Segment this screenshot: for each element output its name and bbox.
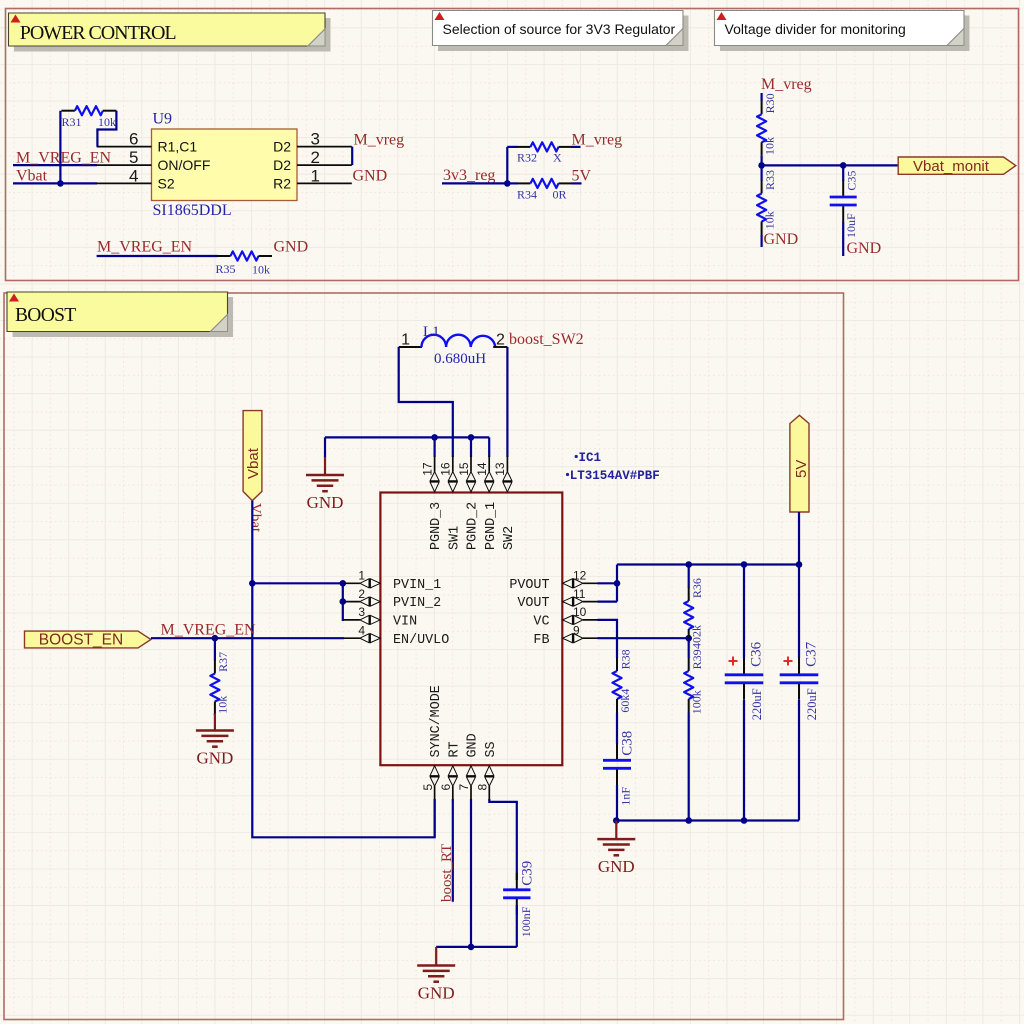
U9 left pin 4 bbox=[97, 166, 175, 191]
wire R31 left to Vbat bbox=[59, 111, 61, 184]
wire pin14 stub bbox=[488, 437, 490, 457]
svg-text:8: 8 bbox=[476, 784, 490, 791]
wire C36 top bbox=[743, 565, 745, 659]
IC1 top pin 16 SW1 bbox=[439, 456, 463, 550]
svg-text:220uF: 220uF bbox=[750, 688, 764, 720]
wire junction to R33 bbox=[760, 165, 762, 180]
svg-text:4: 4 bbox=[129, 166, 138, 185]
svg-text:GND: GND bbox=[598, 857, 635, 876]
svg-text:C39: C39 bbox=[520, 861, 536, 886]
svg-text:2: 2 bbox=[496, 332, 505, 349]
svg-text:boost_SW2: boost_SW2 bbox=[509, 331, 584, 348]
resistor R32 bbox=[517, 142, 572, 151]
IC1 body bbox=[380, 493, 562, 766]
label C35 bbox=[845, 171, 859, 191]
wire R39 to bus bbox=[688, 713, 690, 821]
wire C37 top bbox=[798, 565, 800, 659]
value 100k of R39 bbox=[690, 690, 704, 714]
wire EN bbox=[151, 637, 344, 639]
wire GND drop bbox=[324, 437, 326, 457]
wire pin15 stub bbox=[470, 437, 472, 457]
svg-text:C35: C35 bbox=[845, 171, 859, 191]
resistor R38 bbox=[612, 658, 621, 713]
svg-text:M_vreg: M_vreg bbox=[354, 132, 405, 149]
svg-text:VOUT: VOUT bbox=[517, 596, 549, 611]
capacitor C36 bbox=[725, 658, 764, 700]
net label M_VREG_EN boost bbox=[161, 622, 257, 639]
junction bottom R39 bbox=[685, 817, 692, 824]
junction PVIN_1 tap bbox=[340, 580, 347, 587]
svg-text:S2: S2 bbox=[158, 175, 175, 191]
junction Vbat/R31 bbox=[57, 180, 64, 187]
IC1 left pin 4 EN/UVLO bbox=[344, 623, 449, 647]
svg-text:R32: R32 bbox=[517, 151, 537, 165]
ground GND output bbox=[597, 821, 635, 877]
ground GND left bbox=[306, 457, 344, 512]
IC1 left pin 2 PVIN_2 bbox=[344, 587, 441, 611]
svg-text:M_VREG_EN: M_VREG_EN bbox=[97, 239, 193, 256]
wire link U9 pin3-pin2 bbox=[351, 147, 353, 166]
label R32 bbox=[517, 151, 537, 165]
svg-text:R2: R2 bbox=[273, 175, 291, 191]
svg-text:10k: 10k bbox=[763, 211, 777, 229]
value 220uF of C37 bbox=[805, 688, 819, 720]
svg-text:R30: R30 bbox=[763, 93, 777, 113]
junction bus 5V bbox=[796, 561, 803, 568]
label C37 bbox=[804, 641, 820, 667]
net label M_vreg at R32 bbox=[572, 132, 623, 149]
U9 right pin 1 bbox=[273, 166, 352, 191]
net label GND at R33 bbox=[764, 231, 799, 248]
svg-text:2: 2 bbox=[311, 148, 320, 167]
capacitor C38 bbox=[603, 743, 631, 785]
resistor R39 bbox=[684, 658, 693, 713]
junction FB bbox=[685, 635, 692, 642]
ground GND bottom bbox=[417, 947, 455, 1003]
junction pin7 gnd bbox=[468, 944, 475, 951]
svg-text:5: 5 bbox=[129, 148, 138, 167]
port Vbat bbox=[243, 411, 262, 501]
wire R30 to junction bbox=[760, 156, 762, 166]
svg-text:4: 4 bbox=[358, 623, 365, 637]
wire M_VREG_EN to U9 pin 5 bbox=[13, 164, 97, 166]
svg-text:1: 1 bbox=[401, 332, 410, 349]
label R34 bbox=[517, 188, 537, 202]
net label boost_SW2 bbox=[509, 331, 584, 348]
wire R37 top bbox=[214, 638, 216, 660]
svg-text:3: 3 bbox=[311, 130, 320, 149]
wire L1 pin1 to SW1 bbox=[399, 347, 453, 457]
svg-text:SS: SS bbox=[484, 741, 499, 757]
label R33 bbox=[763, 170, 777, 190]
wire bus to PVOUT/VOUT bbox=[598, 565, 618, 602]
designator L1 bbox=[423, 324, 440, 340]
net label M_VREG_EN bbox=[16, 150, 112, 167]
svg-text:R36: R36 bbox=[690, 578, 704, 598]
label R30 bbox=[763, 93, 777, 113]
wire R32 to M_vreg bbox=[572, 146, 581, 148]
plus sign C36 bbox=[729, 657, 738, 666]
sticky note BOOST bbox=[7, 292, 233, 337]
label C38 bbox=[620, 731, 636, 756]
junction bus R36 bbox=[685, 561, 692, 568]
svg-text:GND: GND bbox=[466, 733, 481, 757]
value 10k of R33 bbox=[763, 211, 777, 229]
svg-text:L1: L1 bbox=[423, 324, 440, 340]
svg-text:1: 1 bbox=[311, 166, 320, 185]
svg-text:Voltage divider for monitoring: Voltage divider for monitoring bbox=[725, 21, 906, 37]
svg-text:SI1865DDL: SI1865DDL bbox=[153, 202, 232, 219]
svg-text:R38: R38 bbox=[619, 649, 633, 669]
svg-text:ON/OFF: ON/OFF bbox=[158, 157, 211, 173]
label R39 bbox=[690, 649, 704, 669]
wire bottom gnd bus bbox=[436, 946, 517, 948]
svg-text:R39: R39 bbox=[690, 649, 704, 669]
wire divider to port bbox=[762, 164, 899, 166]
svg-text:1nF: 1nF bbox=[619, 787, 633, 806]
wire VC down bbox=[598, 620, 618, 658]
U9 right pin 2 bbox=[273, 148, 352, 173]
svg-text:0.680uH: 0.680uH bbox=[434, 351, 486, 367]
U9 left pin 6 bbox=[97, 130, 198, 155]
label R37 bbox=[216, 652, 230, 672]
resistor R34 bbox=[517, 179, 572, 188]
svg-text:X: X bbox=[553, 151, 562, 165]
svg-text:5V: 5V bbox=[572, 168, 592, 185]
IC1 right pin 9 FB bbox=[533, 623, 598, 647]
net label boost_RT bbox=[439, 844, 455, 902]
value 10k of R31 bbox=[98, 115, 116, 129]
label R31 bbox=[62, 115, 82, 129]
svg-text:BOOST_EN: BOOST_EN bbox=[39, 632, 123, 649]
IC1 top pin 15 PGND_2 bbox=[457, 456, 481, 550]
U9 right pin 3 bbox=[273, 130, 352, 155]
value 10uF of C35 bbox=[844, 213, 858, 238]
svg-text:VC: VC bbox=[533, 615, 549, 630]
svg-text:RT: RT bbox=[447, 741, 462, 757]
svg-text:C37: C37 bbox=[804, 641, 820, 667]
resistor R37 bbox=[210, 660, 219, 715]
wire Vbat vertical bbox=[252, 501, 434, 838]
wire C35 bottom bbox=[842, 222, 844, 256]
svg-text:POWER CONTROL: POWER CONTROL bbox=[20, 22, 177, 44]
wire R34 to 5V bbox=[572, 182, 582, 184]
svg-text:SW2: SW2 bbox=[502, 526, 517, 550]
svg-text:Vbat: Vbat bbox=[245, 447, 262, 479]
wire output bus top bbox=[617, 563, 799, 565]
inductor L1 coils bbox=[422, 335, 496, 347]
port 5V bbox=[790, 415, 810, 512]
IC1 left pin 3 VIN bbox=[344, 605, 417, 629]
svg-text:R31: R31 bbox=[62, 115, 82, 129]
ground GND at R37 bbox=[196, 714, 234, 768]
value 0R of R34 bbox=[553, 188, 567, 202]
wire pin17 stub bbox=[434, 437, 436, 457]
net label M_vreg at R30 bbox=[761, 76, 812, 93]
net label M_vreg at U9 bbox=[354, 132, 405, 149]
wire SW2 vertical bbox=[506, 347, 508, 457]
junction divider mid bbox=[758, 162, 765, 169]
svg-text:M_vreg: M_vreg bbox=[761, 76, 812, 93]
svg-text:2: 2 bbox=[358, 587, 365, 601]
wire R38 to C38 bbox=[616, 713, 618, 745]
net label GND at C35 bbox=[847, 240, 882, 257]
svg-text:16: 16 bbox=[439, 462, 453, 476]
op-amp U9 body bbox=[152, 129, 298, 201]
value 10k of R30 bbox=[763, 137, 777, 155]
svg-text:Selection of source for 3V3 Re: Selection of source for 3V3 Regulator bbox=[443, 21, 676, 37]
designator IC1 bbox=[575, 451, 601, 465]
wire PGND bus bbox=[325, 436, 489, 438]
svg-text:60k4: 60k4 bbox=[618, 689, 632, 713]
port BOOST_EN bbox=[25, 631, 151, 648]
svg-text:D2: D2 bbox=[273, 139, 291, 155]
svg-text:10k: 10k bbox=[252, 263, 270, 277]
svg-text:D2: D2 bbox=[273, 157, 291, 173]
svg-text:GND: GND bbox=[418, 984, 455, 1003]
wire R37 bottom bbox=[214, 714, 216, 716]
value 10k of R35 bbox=[252, 263, 270, 277]
IC1 right pin 10 VC bbox=[533, 605, 598, 629]
IC1 right pin 11 VOUT bbox=[517, 587, 599, 611]
svg-text:220uF: 220uF bbox=[805, 688, 819, 720]
designator U9 bbox=[153, 111, 173, 128]
svg-text:10: 10 bbox=[573, 605, 587, 619]
svg-text:R34: R34 bbox=[517, 188, 537, 202]
net label 3v3_reg bbox=[443, 167, 495, 184]
IC1 left pin 1 PVIN_1 bbox=[344, 569, 441, 593]
port Vbat_monit bbox=[898, 157, 1016, 175]
svg-text:GND: GND bbox=[847, 240, 882, 257]
svg-text:SW1: SW1 bbox=[447, 526, 462, 550]
wire PVIN chain bbox=[343, 583, 344, 620]
inductor L1 pin 1 bbox=[399, 332, 422, 349]
label C36 bbox=[749, 641, 765, 667]
wire SS to C39 bbox=[489, 799, 517, 880]
value 1nF of C38 bbox=[619, 787, 633, 806]
sheet region BOOST border bbox=[4, 293, 844, 1020]
svg-text:GND: GND bbox=[196, 749, 233, 768]
resistor R35 bbox=[217, 251, 272, 260]
svg-text:R33: R33 bbox=[763, 170, 777, 190]
wire Vbat to U9 pin 4 bbox=[13, 182, 97, 184]
value X of R32 bbox=[553, 151, 562, 165]
IC1 top pin 13 SW2 bbox=[493, 456, 517, 550]
svg-text:PGND_1: PGND_1 bbox=[484, 502, 499, 550]
svg-text:6: 6 bbox=[439, 784, 453, 791]
note Voltage divider for monitoring bbox=[715, 11, 970, 52]
wire 5V down bbox=[798, 512, 800, 565]
value SI1865DDL bbox=[153, 202, 232, 219]
svg-text:C38: C38 bbox=[620, 731, 636, 756]
svg-text:0R: 0R bbox=[553, 188, 567, 202]
svg-text:Vbat: Vbat bbox=[16, 168, 48, 185]
value 0.680uH bbox=[434, 351, 486, 367]
svg-text:PGND_2: PGND_2 bbox=[466, 502, 481, 550]
capacitor C35 bbox=[830, 180, 857, 222]
svg-text:10uF: 10uF bbox=[844, 213, 858, 238]
wire output bus bottom bbox=[616, 819, 799, 821]
svg-text:12: 12 bbox=[573, 569, 587, 583]
svg-text:Vbat_monit: Vbat_monit bbox=[913, 158, 990, 175]
value 10k of R37 bbox=[216, 696, 230, 714]
svg-text:13: 13 bbox=[493, 462, 507, 476]
IC1 bottom pin 8 SS bbox=[476, 741, 499, 801]
svg-text:11: 11 bbox=[573, 587, 586, 601]
svg-text:GND: GND bbox=[307, 493, 344, 512]
label R38 bbox=[619, 649, 633, 669]
label R36 bbox=[690, 578, 704, 598]
wire PVIN_2 stub bbox=[343, 600, 344, 602]
sheet region POWER CONTROL border bbox=[6, 9, 1019, 281]
wire C38 to bus bbox=[616, 785, 618, 821]
svg-text:M_vreg: M_vreg bbox=[572, 132, 623, 149]
junction PGND pin17 bbox=[431, 434, 438, 441]
IC1 bottom pin 7 GND bbox=[457, 733, 480, 801]
label R35 bbox=[216, 262, 236, 276]
svg-text:PVOUT: PVOUT bbox=[509, 578, 549, 593]
svg-text:GND: GND bbox=[274, 239, 309, 256]
svg-text:C36: C36 bbox=[749, 641, 765, 667]
svg-text:17: 17 bbox=[420, 462, 434, 476]
value 402k of R36 bbox=[690, 625, 704, 649]
junction bus C36 bbox=[741, 561, 748, 568]
svg-text:BOOST: BOOST bbox=[15, 305, 76, 326]
svg-text:3v3_reg: 3v3_reg bbox=[443, 167, 495, 184]
svg-text:10k: 10k bbox=[763, 137, 777, 155]
junction R37 tap bbox=[212, 635, 219, 642]
svg-text:LT3154AV#PBF: LT3154AV#PBF bbox=[570, 469, 660, 483]
net label M_VREG_EN at R35 bbox=[97, 239, 193, 256]
IC1 right pin 12 PVOUT bbox=[509, 569, 599, 593]
wire C36 bottom bbox=[743, 700, 745, 821]
svg-text:GND: GND bbox=[353, 167, 388, 184]
svg-text:R37: R37 bbox=[216, 652, 230, 672]
IC1 top pin 17 PGND_3 bbox=[420, 456, 444, 550]
svg-text:R35: R35 bbox=[216, 262, 236, 276]
net label 5V at R34 bbox=[572, 168, 592, 185]
net label GND at U9 pin1 bbox=[353, 167, 388, 184]
junction PVIN_2 tap bbox=[340, 598, 347, 605]
svg-text:100nF: 100nF bbox=[519, 906, 533, 937]
inductor L1 pin 2 bbox=[493, 332, 507, 349]
svg-text:6: 6 bbox=[129, 130, 138, 149]
net label Vbat bbox=[16, 168, 48, 185]
wire R31 right to U9 pin 6 bbox=[97, 111, 116, 147]
svg-text:14: 14 bbox=[475, 462, 489, 476]
resistor R36 bbox=[684, 588, 693, 643]
svg-text:15: 15 bbox=[457, 462, 471, 476]
net label GND at R35 bbox=[274, 239, 309, 256]
wire R36 top bbox=[688, 565, 690, 589]
label C39 bbox=[520, 861, 536, 886]
svg-text:VIN: VIN bbox=[393, 615, 417, 630]
wire C37 bottom bbox=[798, 700, 800, 821]
junction C35 tap bbox=[840, 162, 847, 169]
svg-text:M_VREG_EN: M_VREG_EN bbox=[16, 150, 112, 167]
svg-text:402k: 402k bbox=[690, 625, 704, 649]
U9 left pin 5 bbox=[97, 148, 211, 173]
wire RT bbox=[452, 799, 454, 902]
wire M_vreg down to R30 bbox=[760, 93, 762, 101]
svg-text:7: 7 bbox=[457, 784, 471, 791]
wire R36 bottom bbox=[688, 638, 690, 642]
IC1 bottom pin 5 SYNC/MODE bbox=[421, 685, 444, 802]
value 220uF of C36 bbox=[750, 688, 764, 720]
svg-text:R1,C1: R1,C1 bbox=[158, 139, 198, 155]
svg-text:9: 9 bbox=[573, 623, 580, 637]
wire PVIN_1 bbox=[252, 582, 343, 584]
svg-text:1: 1 bbox=[358, 569, 365, 583]
svg-text:Vbat: Vbat bbox=[247, 503, 263, 533]
capacitor C37 bbox=[780, 658, 819, 700]
junction PGND pin15 bbox=[468, 434, 475, 441]
junction bottom C36 bbox=[741, 817, 748, 824]
svg-text:IC1: IC1 bbox=[579, 451, 602, 465]
junction 3v3_reg bbox=[504, 180, 511, 187]
svg-text:M_VREG_EN: M_VREG_EN bbox=[161, 622, 257, 639]
svg-text:100k: 100k bbox=[690, 690, 704, 714]
net label Vbat vertical bbox=[247, 503, 263, 533]
svg-text:5V: 5V bbox=[793, 460, 810, 478]
resistor R31 bbox=[61, 106, 116, 115]
resistor R30 bbox=[757, 101, 766, 156]
wire SYNC/MODE bbox=[434, 799, 436, 837]
plus sign C37 bbox=[784, 657, 793, 666]
wire R33 bottom bbox=[760, 235, 762, 247]
svg-text:PVIN_1: PVIN_1 bbox=[393, 578, 441, 593]
wire 3v3_reg bbox=[442, 182, 507, 184]
wire R32 left stub bbox=[507, 146, 517, 148]
svg-text:PVIN_2: PVIN_2 bbox=[393, 596, 441, 611]
IC1 top pin 14 PGND_1 bbox=[475, 456, 499, 550]
value 100nF of C39 bbox=[519, 906, 533, 937]
svg-text:3: 3 bbox=[358, 605, 365, 619]
svg-text:PGND_3: PGND_3 bbox=[429, 502, 444, 550]
wire M_VREG_EN to R35 bbox=[97, 255, 218, 257]
svg-text:U9: U9 bbox=[153, 111, 173, 128]
svg-text:10k: 10k bbox=[216, 696, 230, 714]
svg-text:10k: 10k bbox=[98, 115, 116, 129]
wire GND pin7 bbox=[470, 799, 472, 947]
wire R39 top bbox=[688, 638, 690, 658]
resistor R33 bbox=[757, 180, 766, 235]
wire FB to R36/R39 bbox=[598, 637, 689, 639]
svg-text:boost_RT: boost_RT bbox=[439, 844, 455, 902]
wire C35 top bbox=[842, 165, 844, 181]
value 60k4 of R38 bbox=[618, 689, 632, 713]
wire C39 to bus bbox=[516, 905, 518, 947]
wire R34 left stub bbox=[507, 182, 517, 184]
svg-text:5: 5 bbox=[421, 784, 435, 791]
svg-text:SYNC/MODE: SYNC/MODE bbox=[429, 685, 444, 757]
wire PVOUT stub bbox=[598, 582, 618, 584]
capacitor C39 bbox=[503, 873, 530, 915]
svg-text:EN/UVLO: EN/UVLO bbox=[393, 633, 449, 648]
IC1 bottom pin 6 RT bbox=[439, 741, 462, 801]
junction PVOUT bbox=[614, 580, 621, 587]
svg-text:GND: GND bbox=[764, 231, 799, 248]
sticky note POWER CONTROL bbox=[9, 13, 331, 52]
junction bottom C38 bbox=[613, 817, 620, 824]
note Selection of source for 3V3 Regulator bbox=[433, 11, 689, 52]
value LT3154AV#PBF bbox=[566, 469, 660, 483]
wire up to R32 bbox=[506, 147, 508, 184]
junction Vbat/PVIN bbox=[249, 580, 256, 587]
svg-text:FB: FB bbox=[533, 633, 549, 648]
